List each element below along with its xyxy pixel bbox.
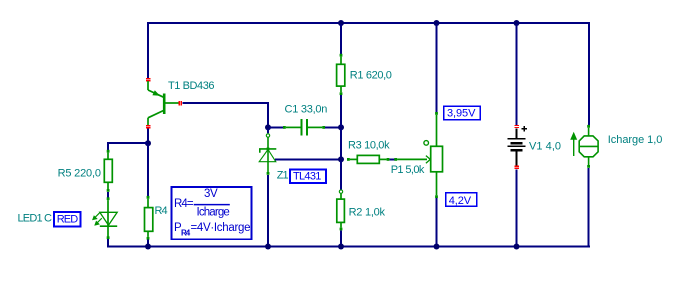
transistor T1 (PNP BD436) xyxy=(148,81,179,126)
node label box 3,95V xyxy=(444,106,481,120)
svg-text:TL431: TL431 xyxy=(293,170,321,182)
wire Z1 ref to R3 node xyxy=(275,158,340,160)
wire R3 to P1 wiper xyxy=(389,158,394,160)
wire T1 collector down to left junction xyxy=(147,129,149,145)
current source Icharge xyxy=(579,125,598,168)
wire Icharge bottom xyxy=(588,168,590,246)
junction top rail / R1 column xyxy=(338,20,344,26)
junction bottom rail / P1 xyxy=(434,244,440,250)
wire LED1 to bottom rail xyxy=(108,239,114,246)
capacitor C1 xyxy=(269,119,340,136)
svg-text:T1 BD436: T1 BD436 xyxy=(168,80,214,92)
svg-text:Icharge 1,0: Icharge 1,0 xyxy=(608,134,663,146)
junction bottom rail / V1 xyxy=(514,244,520,250)
svg-text:R4=: R4= xyxy=(174,198,194,210)
wire R4 to bottom rail xyxy=(147,240,149,247)
wire P1 top to top rail xyxy=(436,24,438,112)
wire top-right vertical (Icharge column upper) xyxy=(588,22,590,126)
svg-text:R5 220,0: R5 220,0 xyxy=(58,168,101,180)
svg-text:LED1 C: LED1 C xyxy=(18,213,52,225)
resistor R5 xyxy=(104,150,112,192)
svg-text:Icharge: Icharge xyxy=(197,207,230,219)
formula box R4 xyxy=(172,187,252,239)
wire top-left vertical (T1 emitter column) xyxy=(147,22,149,79)
shunt regulator Z1 TL431 xyxy=(259,129,276,175)
junction T1 collector / R5 / R4 node xyxy=(145,140,151,146)
wire left branch to R5/LED column xyxy=(108,143,147,150)
LED1 emission arrows xyxy=(93,213,102,225)
junction bottom rail / R2 xyxy=(338,244,344,250)
junction bottom rail / R4 xyxy=(145,244,151,250)
red tick T1 base pin xyxy=(179,101,181,106)
svg-text:R3 10,0k: R3 10,0k xyxy=(348,140,390,152)
wire R5 to LED1 xyxy=(107,192,109,198)
red tick V1 negative pin xyxy=(515,166,520,168)
wire bottom rail xyxy=(107,246,590,248)
wire junction down to R4 xyxy=(147,144,149,197)
resistor R2 xyxy=(337,160,345,246)
junction C1 right / R1 / R3 node xyxy=(338,124,344,130)
resistor R1 xyxy=(337,24,345,127)
wire T1 base to C1/Z1 node xyxy=(183,103,269,127)
value box TL431 xyxy=(290,169,326,183)
potentiometer P1 xyxy=(394,112,442,198)
T1 emitter arrowhead xyxy=(152,90,160,96)
red tick V1 positive pin xyxy=(515,125,520,127)
svg-text:P1 5,0k: P1 5,0k xyxy=(391,164,425,176)
node label box 4,2V xyxy=(446,193,477,208)
wire Z1 anode to bottom rail xyxy=(267,175,269,247)
svg-text:V1 4,0: V1 4,0 xyxy=(529,141,561,153)
battery V1 xyxy=(508,129,526,166)
junction top rail / V1 column xyxy=(514,20,520,26)
wire V1 top xyxy=(516,24,518,125)
red tick T1 collector pin xyxy=(146,126,151,128)
svg-text:3V: 3V xyxy=(204,188,218,200)
wire R1 node to R3 node xyxy=(340,129,342,160)
resistor R3 xyxy=(347,155,389,163)
svg-text:R4: R4 xyxy=(155,205,168,217)
wire top rail xyxy=(147,22,590,24)
svg-text:C1 33,0n: C1 33,0n xyxy=(285,103,328,115)
junction R3 / R2 / Z1-ref node xyxy=(338,156,344,162)
LED LED1 xyxy=(100,197,117,239)
Icharge direction arrow xyxy=(571,134,576,157)
svg-text:Z1: Z1 xyxy=(277,169,289,181)
junction C1 left / Z1 / T1 base node xyxy=(265,124,271,130)
svg-text:4,2V: 4,2V xyxy=(449,195,472,207)
wire V1 bottom to bottom rail xyxy=(516,169,518,246)
junction bottom rail / Z1 xyxy=(265,244,271,250)
junction top rail / P1 column xyxy=(434,20,440,26)
svg-text:3,95V: 3,95V xyxy=(447,108,476,120)
red tick T1 emitter pin xyxy=(146,79,151,81)
value box RED xyxy=(54,212,81,227)
svg-text:R1 620,0: R1 620,0 xyxy=(350,69,392,81)
wire P1 bottom to bottom rail xyxy=(436,198,438,246)
V1 plus sign xyxy=(522,126,527,131)
resistor R4 xyxy=(145,196,153,240)
svg-text:RED: RED xyxy=(57,213,79,225)
svg-text:=4V·Icharge: =4V·Icharge xyxy=(191,222,251,234)
svg-text:R2 1,0k: R2 1,0k xyxy=(349,207,386,219)
